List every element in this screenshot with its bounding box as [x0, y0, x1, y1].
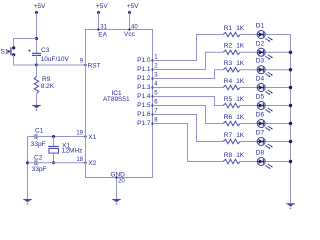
- wire D4 to bus: [265, 87, 290, 89]
- node pin 20 connection: [115, 176, 117, 178]
- LED D2: [257, 48, 273, 59]
- svg-text:1K: 1K: [236, 25, 245, 32]
- svg-text:R3: R3: [224, 60, 233, 67]
- wire R5 to D5: [240, 105, 257, 107]
- svg-text:R6: R6: [224, 114, 233, 121]
- node pin 18 connection: [84, 162, 86, 164]
- svg-text:1K: 1K: [236, 60, 245, 67]
- resistor R2: [223, 50, 240, 54]
- svg-text:D2: D2: [256, 40, 265, 47]
- svg-text:RST: RST: [88, 62, 101, 69]
- wire GND pin 20: [116, 178, 118, 200]
- wire crystal top: [53, 137, 55, 147]
- svg-text:P1.1: P1.1: [137, 66, 151, 73]
- wire R1 to D1: [240, 34, 257, 36]
- wire Vcc pin 40: [129, 13, 131, 30]
- svg-text:1K: 1K: [236, 96, 245, 103]
- svg-text:R4: R4: [224, 78, 233, 85]
- resistor R9: [34, 77, 38, 94]
- node pin 1 connection: [151, 59, 153, 61]
- resistor R1: [223, 32, 240, 36]
- wire R7 to D7: [240, 141, 257, 143]
- node pin 2 connection: [151, 68, 153, 70]
- node junction bus row 5: [289, 104, 292, 107]
- svg-text:P1.2: P1.2: [137, 75, 151, 82]
- node pin 3 connection: [151, 77, 153, 79]
- svg-text:C1: C1: [35, 127, 44, 134]
- wire P1.1 to R2: [153, 52, 224, 69]
- svg-text:X2: X2: [88, 160, 96, 167]
- svg-text:20: 20: [118, 179, 125, 185]
- wire S1 top branch: [14, 39, 37, 48]
- svg-text:D1: D1: [256, 23, 265, 30]
- svg-text:P1.6: P1.6: [137, 111, 151, 118]
- wire D5 to bus: [265, 105, 290, 107]
- node junction bus row 2: [289, 51, 292, 54]
- capacitor C2: [34, 160, 37, 165]
- svg-text:+5V: +5V: [34, 3, 46, 10]
- wire P1.3 to R4: [153, 87, 224, 89]
- wire R3 to D3: [240, 69, 257, 71]
- resistor R8: [223, 159, 240, 163]
- wire EA pin 31: [98, 13, 100, 30]
- capacitor C3: [28, 50, 41, 56]
- wire X1 line: [28, 136, 86, 138]
- svg-text:33pF: 33pF: [32, 166, 47, 173]
- svg-text:1K: 1K: [236, 43, 245, 50]
- svg-text:R8: R8: [224, 152, 233, 159]
- node pin 19 connection: [84, 135, 86, 137]
- svg-text:+5V: +5V: [127, 3, 139, 10]
- LED D3: [257, 66, 273, 77]
- power +5V symbol (left): [35, 11, 38, 14]
- svg-text:+5V: +5V: [96, 3, 108, 10]
- svg-text:Vcc: Vcc: [124, 31, 136, 38]
- svg-text:18: 18: [76, 157, 83, 163]
- svg-text:R5: R5: [224, 96, 233, 103]
- power +5V symbol (EA): [97, 11, 100, 14]
- wire D8 to bus: [265, 161, 290, 163]
- wire P1.4 to R5: [153, 97, 224, 106]
- node junction S1 top: [35, 37, 38, 40]
- node pin 6 connection: [151, 104, 153, 106]
- node pin 4 connection: [151, 86, 153, 88]
- wire X2 line: [28, 162, 86, 164]
- resistor R4: [223, 85, 240, 89]
- svg-text:P1.0: P1.0: [137, 57, 151, 64]
- LED D1: [257, 31, 273, 42]
- LED D6: [257, 120, 273, 131]
- LED D8: [257, 158, 273, 169]
- node pin 7 connection: [151, 113, 153, 115]
- ground under bus: [286, 204, 294, 209]
- wire crystal bottom: [53, 153, 55, 163]
- svg-text:1K: 1K: [236, 132, 245, 139]
- node junction crystal bottom: [52, 161, 55, 164]
- svg-text:D3: D3: [256, 58, 265, 65]
- svg-text:P1.4: P1.4: [137, 93, 151, 100]
- svg-text:D6: D6: [256, 112, 265, 119]
- wire D1 to bus: [265, 34, 290, 36]
- wire P1.5 to R6: [153, 106, 224, 124]
- svg-text:D7: D7: [256, 130, 265, 137]
- svg-text:D4: D4: [256, 76, 265, 83]
- wire R9 to ground: [36, 94, 38, 105]
- wire D3 to bus: [265, 69, 290, 71]
- svg-text:X1: X1: [88, 134, 96, 141]
- LED D5: [257, 102, 273, 113]
- svg-text:R2: R2: [224, 43, 233, 50]
- node junction bus row 7: [289, 140, 292, 143]
- svg-text:GND: GND: [110, 171, 125, 178]
- svg-text:1K: 1K: [236, 152, 245, 159]
- svg-text:EA: EA: [98, 32, 107, 39]
- wire R8 to D8: [240, 161, 257, 163]
- node junction crystal top: [52, 135, 55, 138]
- node pin 9 connection: [84, 64, 86, 66]
- wire P1.7 to R8: [153, 124, 224, 162]
- IC IC1 AT89S51 box: [86, 30, 153, 178]
- node junction left rail X2: [26, 161, 29, 164]
- wire D6 to bus: [265, 123, 290, 125]
- wire RST node to pin 9: [37, 64, 86, 66]
- node junction bus row 8: [289, 160, 292, 163]
- svg-text:AT89S51: AT89S51: [103, 96, 130, 103]
- svg-text:R7: R7: [224, 132, 233, 139]
- svg-text:8.2K: 8.2K: [41, 83, 55, 90]
- node junction bus row 6: [289, 122, 292, 125]
- svg-text:40: 40: [131, 25, 138, 31]
- svg-text:31: 31: [100, 25, 107, 31]
- switch S1: [7, 46, 15, 56]
- svg-text:P1.5: P1.5: [137, 102, 151, 109]
- svg-text:1K: 1K: [236, 114, 245, 121]
- node pin 31 connection: [97, 28, 99, 30]
- LED D7: [257, 138, 273, 149]
- node pin 8 connection: [151, 122, 153, 124]
- ground under IC: [112, 200, 120, 205]
- node pin 40 connection: [128, 28, 130, 30]
- svg-text:D8: D8: [256, 150, 265, 157]
- svg-text:R1: R1: [224, 25, 233, 32]
- svg-text:33pF: 33pF: [31, 141, 46, 148]
- svg-text:10uF/10V: 10uF/10V: [41, 56, 70, 63]
- svg-text:P1.3: P1.3: [137, 84, 151, 91]
- wire S1 bottom branch: [14, 55, 37, 65]
- resistor R7: [223, 139, 240, 143]
- ground under R9: [32, 106, 40, 111]
- svg-text:19: 19: [76, 131, 83, 137]
- svg-text:P1.7: P1.7: [137, 120, 151, 127]
- resistor R3: [223, 68, 240, 72]
- wire P1.2 to R3: [153, 70, 224, 79]
- resistor R6: [223, 121, 240, 125]
- node junction bus row 4: [289, 86, 292, 89]
- svg-text:1K: 1K: [236, 78, 245, 85]
- svg-text:D5: D5: [256, 94, 265, 101]
- resistor R5: [223, 103, 240, 107]
- wire +5V to S1 junction: [36, 13, 38, 54]
- svg-text:C2: C2: [34, 154, 43, 161]
- power +5V symbol (Vcc): [128, 11, 131, 14]
- wire R2 to D2: [240, 51, 257, 53]
- node junction bus row 3: [289, 68, 292, 71]
- svg-text:C3: C3: [41, 47, 50, 54]
- ground under left rail: [23, 200, 31, 205]
- wire D2 to bus: [265, 51, 290, 53]
- crystal X1: [48, 147, 59, 154]
- wire P1.0 to R1: [153, 35, 224, 61]
- svg-text:12MHz: 12MHz: [62, 147, 83, 154]
- wire crystal left rail: [27, 137, 29, 200]
- capacitor C1: [34, 134, 37, 139]
- LED D4: [257, 84, 273, 95]
- node pin 5 connection: [151, 95, 153, 97]
- wire P1.6 to R7: [153, 115, 224, 142]
- wire D7 to bus: [265, 141, 290, 143]
- wire LED cathode bus: [290, 35, 292, 204]
- node junction RST: [35, 64, 38, 67]
- wire RST node down to R9: [36, 65, 38, 77]
- wire R6 to D6: [240, 123, 257, 125]
- svg-text:S1: S1: [1, 49, 9, 56]
- wire C3 to RST node: [36, 55, 38, 65]
- wire R4 to D4: [240, 87, 257, 89]
